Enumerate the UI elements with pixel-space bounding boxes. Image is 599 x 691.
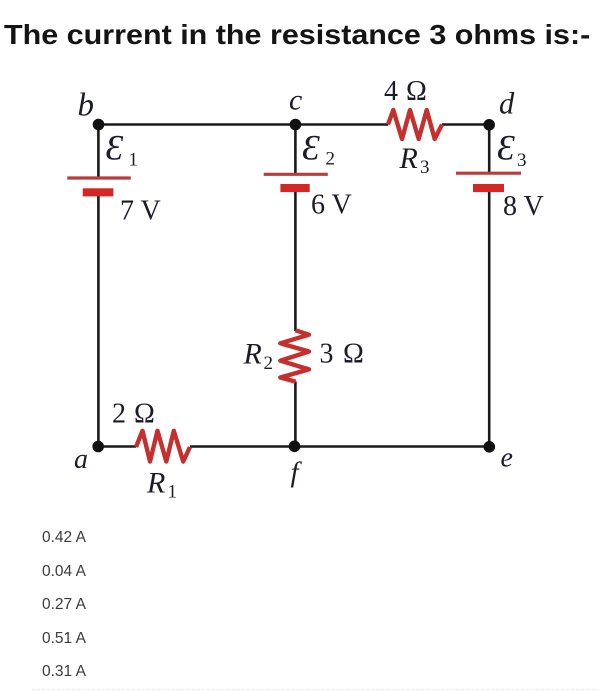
battery E3 [456, 128, 544, 223]
svg-text:6 V: 6 V [311, 190, 352, 221]
svg-text:Ɛ: Ɛ [302, 128, 320, 168]
svg-text:7 V: 7 V [120, 196, 161, 227]
wire right lower E3 to e [488, 189, 491, 447]
node a [74, 441, 104, 475]
wire top R3-d [442, 123, 489, 126]
node e [484, 441, 513, 474]
wire left upper b to E1 [97, 123, 100, 177]
svg-text:3: 3 [420, 157, 430, 178]
svg-text:f: f [291, 457, 303, 489]
wire bottom R1 to f to e [190, 445, 489, 448]
svg-text:Ɛ: Ɛ [106, 128, 124, 168]
svg-text:Ω: Ω [406, 76, 427, 107]
node c [289, 84, 302, 131]
svg-text:b: b [78, 88, 95, 124]
svg-text:3: 3 [517, 150, 527, 171]
wire middle R2 to f [294, 382, 297, 447]
svg-text:8 V: 8 V [503, 191, 544, 222]
svg-text:Ω: Ω [134, 399, 155, 430]
battery E2 [264, 128, 352, 221]
svg-text:1: 1 [168, 482, 178, 503]
svg-text:1: 1 [129, 149, 139, 170]
wire middle E2 to R2 [294, 189, 297, 331]
wire left lower E1 to a [97, 193, 100, 447]
svg-text:2: 2 [326, 149, 336, 170]
resistor R1 [112, 399, 190, 503]
svg-text:R: R [146, 467, 165, 500]
resistor R2 [243, 330, 364, 381]
wire middle upper c to E2 [294, 123, 297, 174]
svg-text:2: 2 [112, 399, 126, 430]
battery E1 [67, 128, 160, 227]
wire top b-c-R3 [98, 123, 388, 126]
svg-text:Ω: Ω [343, 339, 364, 370]
svg-text:R: R [399, 142, 418, 175]
svg-text:3: 3 [320, 339, 334, 370]
svg-text:R: R [243, 338, 262, 371]
resistor R3 [384, 76, 442, 178]
svg-text:d: d [499, 87, 515, 121]
svg-text:e: e [501, 443, 513, 474]
svg-text:c: c [289, 84, 302, 117]
node f [289, 441, 303, 489]
svg-text:Ɛ: Ɛ [497, 128, 515, 168]
wire bottom a to R1 [98, 445, 136, 448]
wire right upper d to E3 [488, 123, 491, 173]
svg-text:2: 2 [264, 353, 274, 374]
svg-text:4: 4 [384, 76, 398, 107]
node b [78, 88, 105, 131]
node d [483, 87, 515, 131]
svg-text:a: a [74, 444, 88, 475]
